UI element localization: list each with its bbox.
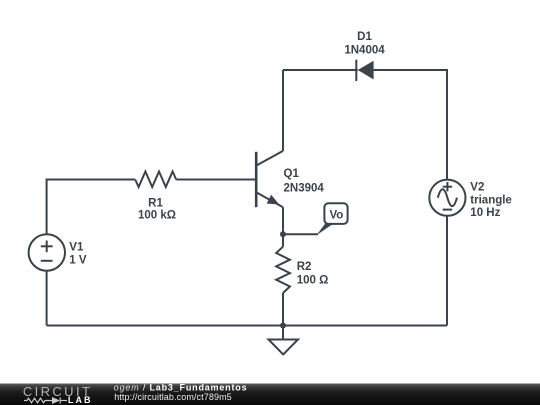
wire: R2 to bottom rail xyxy=(282,293,284,326)
svg-text:10 Hz: 10 Hz xyxy=(470,207,500,219)
wire: V1 bottom to bottom rail xyxy=(46,271,48,326)
wire: V1 top up and right to R1 xyxy=(47,180,136,235)
CircuitLab logo xyxy=(23,384,91,405)
wire: D1 to top-right corner xyxy=(374,70,447,180)
voltage source V1 xyxy=(29,234,65,270)
svg-text:1N4004: 1N4004 xyxy=(344,44,385,56)
label V1 value xyxy=(69,241,87,266)
footer bar xyxy=(0,384,540,405)
label R1 value xyxy=(138,198,176,222)
resistor R2 xyxy=(276,247,290,293)
wire: top rail to D1 xyxy=(283,69,358,71)
diode D1 xyxy=(356,60,373,81)
svg-text:Q1: Q1 xyxy=(284,168,300,180)
wire: R1 to Q1 base xyxy=(176,179,255,181)
label R2 value xyxy=(297,261,329,287)
node: emitter junction dot xyxy=(280,231,286,237)
svg-text:ogem / Lab3_Fundamentos: ogem / Lab3_Fundamentos xyxy=(114,383,247,393)
svg-text:2N3904: 2N3904 xyxy=(284,182,325,194)
wire: bottom rail xyxy=(47,325,447,327)
label Q1 value xyxy=(284,168,325,194)
svg-text:R2: R2 xyxy=(297,261,312,273)
label V2 value xyxy=(470,181,512,219)
svg-text:Vo: Vo xyxy=(329,210,343,222)
wire: node to R2 xyxy=(282,234,284,246)
wire: V2 bottom to bottom rail xyxy=(446,216,448,326)
svg-text:V1: V1 xyxy=(69,241,84,253)
svg-text:D1: D1 xyxy=(357,31,372,43)
wire: node to Vo flag xyxy=(283,233,318,235)
svg-text:http://circuitlab.com/ct789m5: http://circuitlab.com/ct789m5 xyxy=(114,392,232,402)
svg-text:triangle: triangle xyxy=(470,195,512,207)
wire: Q1 emitter to node xyxy=(282,207,284,234)
footer attribution xyxy=(114,383,247,403)
svg-text:LAB: LAB xyxy=(68,395,91,405)
svg-text:100 kΩ: 100 kΩ xyxy=(138,210,176,222)
transistor Q1 xyxy=(256,151,283,207)
label D1 value xyxy=(344,31,385,56)
svg-text:V2: V2 xyxy=(470,181,484,193)
resistor R1 xyxy=(135,172,176,188)
svg-text:R1: R1 xyxy=(148,198,163,210)
voltage source V2 xyxy=(429,180,465,216)
node: ground junction dot xyxy=(280,323,286,329)
ground xyxy=(269,326,299,355)
svg-text:1 V: 1 V xyxy=(69,255,87,267)
net flag Vo xyxy=(317,203,348,235)
svg-text:100 Ω: 100 Ω xyxy=(297,275,329,287)
wire: Q1 collector riser xyxy=(282,70,284,151)
